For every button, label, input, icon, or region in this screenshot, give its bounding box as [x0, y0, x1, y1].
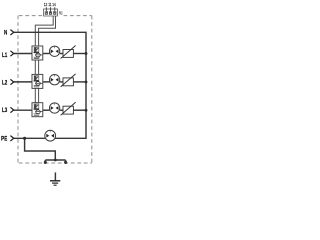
svg-text:L2: L2 — [2, 80, 7, 87]
svg-text:N: N — [4, 30, 7, 37]
svg-text:L3: L3 — [2, 107, 7, 114]
svg-text:L1: L1 — [2, 52, 7, 59]
svg-text:12: 12 — [44, 1, 48, 7]
svg-text:PE: PE — [1, 136, 7, 143]
svg-text:RC: RC — [59, 11, 63, 16]
svg-text:14: 14 — [52, 1, 56, 7]
